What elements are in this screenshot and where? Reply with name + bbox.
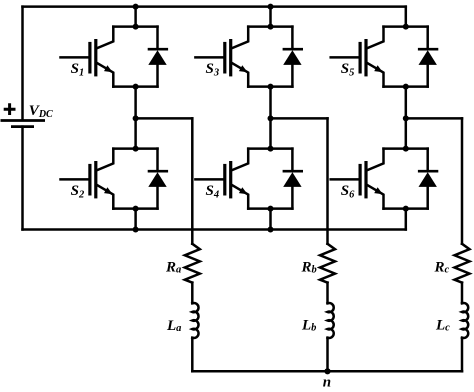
junction: leg A / bottom rail — [133, 227, 139, 233]
junction: S3 top — [268, 24, 274, 30]
diode across S3 — [283, 27, 303, 87]
junction: S5 top — [403, 24, 409, 30]
junction: S6 bottom — [403, 206, 409, 212]
cell S6 lower leg C — [331, 146, 439, 212]
wire: leg A bottom stub — [134, 209, 137, 230]
wire: S4 collector-side bar — [248, 147, 292, 150]
wire: Rb to Lb — [326, 283, 329, 304]
wire: Rc to Lc — [461, 283, 464, 304]
cell S3 upper leg B — [195, 24, 303, 90]
wire: phase b drop to load — [326, 118, 329, 243]
wire: Ra to La — [191, 283, 194, 304]
wire: leg B mid (phase b node column) — [269, 87, 272, 149]
wire: La to neutral — [191, 338, 194, 372]
diode across S2 — [148, 149, 168, 209]
battery VDC negative plate — [11, 125, 34, 128]
cell S1 upper leg A — [61, 24, 169, 90]
wire: S3 collector-side bar — [248, 25, 292, 28]
wire: S2 collector-side bar — [113, 147, 157, 150]
wire: Lb to neutral — [326, 338, 329, 372]
junction: S2 top — [133, 146, 139, 152]
label + polarity — [4, 103, 16, 115]
cell S5 upper leg C — [331, 24, 439, 90]
wire: leg B bottom stub — [269, 209, 272, 230]
diode across S6 — [418, 149, 438, 209]
transistor S4 (IGBT) — [195, 149, 248, 209]
junction: S2 bottom — [133, 206, 139, 212]
wire: phase c output — [406, 117, 462, 120]
wire: Lc to neutral — [461, 338, 464, 372]
wire: phase a output — [136, 117, 193, 120]
junction: phase a node — [133, 115, 139, 121]
transistor S6 (IGBT) — [331, 149, 384, 209]
svg-text:n: n — [323, 375, 331, 391]
resistor Ra — [185, 244, 200, 283]
inductor Lc — [462, 303, 468, 338]
wire: S6 emitter-side bar — [384, 207, 428, 210]
transistor S3 (IGBT) — [195, 27, 248, 87]
wire: S1 collector-side bar — [113, 25, 157, 28]
junction: S3 bottom — [268, 84, 274, 90]
wire: S5 emitter-side bar — [384, 85, 428, 88]
wire: S2 emitter-side bar — [113, 207, 157, 210]
junction: S1 bottom — [133, 84, 139, 90]
junction: S6 top — [403, 146, 409, 152]
cell S2 lower leg A — [61, 146, 169, 212]
battery VDC positive plate — [1, 119, 46, 122]
wire: S5 collector-side bar — [384, 25, 428, 28]
inductor Lb — [328, 303, 334, 338]
transistor S5 (IGBT) — [331, 27, 384, 87]
wire: battery negative lead — [21, 127, 24, 230]
wire: leg B top stub — [269, 7, 272, 27]
diode across S4 — [283, 149, 303, 209]
wire: phase a drop to load — [191, 118, 194, 243]
wire: S6 collector-side bar — [384, 147, 428, 150]
junction: S1 top — [133, 24, 139, 30]
junction: S4 bottom — [268, 206, 274, 212]
diode across S1 — [148, 27, 168, 87]
wire: leg C bottom stub — [405, 209, 408, 230]
wire: leg A mid (phase a node column) — [134, 87, 137, 149]
cell S4 lower leg B — [195, 146, 303, 212]
resistor Rb — [320, 244, 335, 283]
wire: S3 emitter-side bar — [248, 85, 292, 88]
transistor S1 (IGBT) — [61, 27, 114, 87]
junction: S5 bottom — [403, 84, 409, 90]
wire: negative DC rail (bottom) — [23, 228, 406, 231]
wire: neutral bus — [192, 370, 462, 373]
wire: leg C mid (phase c node column) — [405, 87, 408, 149]
inductor La — [192, 303, 198, 338]
junction: phase b node — [268, 115, 274, 121]
wire: phase b output — [271, 117, 328, 120]
junction: leg B / top rail — [268, 4, 274, 10]
wire: leg C top stub — [405, 7, 408, 27]
diode across S5 — [418, 27, 438, 87]
transistor S2 (IGBT) — [61, 149, 114, 209]
wire: phase c drop to load — [461, 118, 464, 243]
wire: positive DC rail (top) — [23, 5, 406, 8]
wire: leg A top stub — [134, 7, 137, 27]
junction: node n — [324, 368, 330, 374]
resistor Rc — [455, 244, 470, 283]
junction: phase c node — [403, 115, 409, 121]
wire: battery positive lead (left rail) — [21, 7, 24, 120]
junction: S4 top — [268, 146, 274, 152]
junction: leg A / top rail — [133, 4, 139, 10]
wire: S1 emitter-side bar — [113, 85, 157, 88]
junction: leg B / bottom rail — [268, 227, 274, 233]
wire: S4 emitter-side bar — [248, 207, 292, 210]
